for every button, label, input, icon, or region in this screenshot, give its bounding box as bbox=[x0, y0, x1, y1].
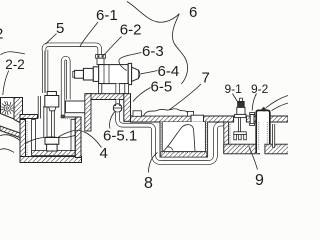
wire: curve at bottom left bbox=[0, 149, 14, 153]
pump neck bbox=[49, 107, 56, 111]
stirrer flange bbox=[235, 114, 246, 117]
pump canister top hat bbox=[47, 92, 56, 96]
tank 8 inner bottom band bbox=[161, 152, 207, 157]
feed hopper box 2 bbox=[1, 98, 15, 120]
svg-text:6-5: 6-5 bbox=[151, 79, 173, 96]
pipe stub into tank 4 left bbox=[38, 96, 40, 119]
svg-text:6-2: 6-2 bbox=[120, 22, 142, 39]
shaft segment large bbox=[93, 67, 98, 82]
tank 8 inner vessel bbox=[160, 122, 208, 157]
pipe 5 vertical (double-walled suction pipe) bbox=[42, 50, 48, 93]
wire: leader from label 2-2 to gear box bbox=[3, 71, 9, 96]
svg-text:6-5.1: 6-5.1 bbox=[103, 128, 137, 145]
pipe from valve to tank 8 jacket and around to tank 9 bbox=[118, 112, 229, 162]
dip tube bridge pipe bbox=[63, 58, 68, 115]
wire: leader 6-1 bbox=[80, 22, 98, 47]
narrow dark box between tank 9 and right tank bbox=[256, 110, 270, 153]
shaft segment mid bbox=[83, 68, 93, 80]
fitting 6-2 flange bbox=[96, 55, 106, 59]
hatched column under base plate left end bbox=[85, 94, 91, 131]
wire: leader 7 bbox=[169, 84, 201, 110]
svg-text:6-3: 6-3 bbox=[142, 43, 164, 60]
motor end plate bbox=[128, 63, 131, 84]
platform band segment B bbox=[204, 116, 234, 122]
svg-text:9-1: 9-1 bbox=[225, 82, 243, 96]
svg-text:9: 9 bbox=[255, 172, 264, 189]
svg-text:9-2: 9-2 bbox=[251, 82, 269, 96]
wire: leader 9-1 bbox=[233, 94, 240, 105]
base plate bbox=[86, 94, 124, 100]
wire: leader 8 bbox=[149, 152, 158, 172]
stirrer crossbar bbox=[234, 132, 247, 135]
svg-text:4: 4 bbox=[100, 145, 108, 162]
wire: curve into tank 4 lower left bbox=[0, 135, 22, 142]
dip tube end cap bbox=[61, 115, 66, 119]
pump head flange bbox=[45, 138, 59, 145]
tank 4 rim lip right (line with stipple) bbox=[65, 116, 78, 118]
stirrer motor body bbox=[237, 107, 245, 114]
tank 9 inner stipple bbox=[229, 124, 231, 144]
shaft cap bbox=[73, 71, 75, 77]
tank 4 outer jacket right wall bbox=[75, 117, 81, 158]
stirrer 9-1 motor cap bbox=[240, 98, 243, 101]
wire: leader 6-5 bbox=[133, 88, 151, 102]
wire: leader 6-3 bbox=[119, 53, 142, 71]
svg-text:6-4: 6-4 bbox=[158, 63, 180, 80]
gate box in band bbox=[191, 115, 204, 122]
svg-text:7: 7 bbox=[202, 70, 210, 87]
down pipe from motor bbox=[115, 84, 119, 104]
right tank dip tube bbox=[273, 124, 275, 148]
pump head body bbox=[47, 144, 58, 151]
svg-text:2-2: 2-2 bbox=[5, 57, 25, 72]
wire: leader 9-2 bbox=[252, 94, 256, 111]
platform band segment C bbox=[246, 116, 250, 122]
tank 4 outer jacket bottom bbox=[20, 157, 82, 163]
wire: leader 9 bbox=[249, 147, 258, 170]
hatched hopper wall bbox=[14, 98, 23, 125]
tank 4 inner vessel bottom bbox=[32, 151, 76, 156]
stirrer shaft bbox=[239, 118, 241, 132]
white ledge box under base plate left bbox=[66, 101, 87, 113]
valve 6-5.1 bbox=[113, 104, 122, 113]
wire: leader from right edge upper bbox=[266, 96, 288, 109]
platform band segment D bbox=[254, 116, 256, 122]
base plate right step block bbox=[124, 94, 131, 122]
pipe 5 top loop bbox=[44, 45, 100, 55]
svg-text:5: 5 bbox=[56, 20, 64, 37]
pump suction tube to head bbox=[44, 106, 47, 138]
motor 6-3 body bbox=[99, 65, 129, 84]
tank 4 rim left piece bbox=[20, 115, 38, 119]
tank 4 inner vessel right wall bbox=[71, 120, 75, 153]
pump canister body bbox=[45, 96, 59, 108]
pump rod bbox=[52, 111, 55, 138]
right tank bottom bbox=[265, 144, 289, 154]
clamp box at right end of lump bbox=[188, 111, 194, 116]
svg-text:2: 2 bbox=[0, 26, 3, 43]
small box on platform bbox=[133, 111, 142, 117]
platform band segment A bbox=[131, 116, 192, 122]
rotary star wheel 2-2 bbox=[0, 101, 14, 115]
wire: leader 6 upper curve bbox=[127, 2, 179, 23]
tank 9 bottom bbox=[224, 144, 260, 154]
tube 9-2 bbox=[250, 113, 255, 115]
tank 9 left wall bbox=[224, 122, 229, 153]
wire: leader 6-5.1 bbox=[110, 112, 115, 129]
tank 4 inner vessel left wall bbox=[26, 121, 28, 155]
stirrer teeth bbox=[234, 134, 237, 139]
mound inside tank 8 bbox=[163, 125, 195, 152]
wire: leader from right edge lower bbox=[272, 103, 289, 111]
wire: leader squiggle from label 2 bbox=[1, 52, 25, 55]
pipe through base to valve bbox=[115, 100, 119, 105]
shaft segment tip bbox=[75, 70, 84, 78]
svg-text:8: 8 bbox=[144, 175, 153, 192]
fitting 6-2 body bbox=[97, 58, 104, 64]
wire: leader 6-2 bbox=[104, 37, 122, 56]
wire: leader 5 bbox=[46, 34, 57, 45]
tank 4 outer jacket left wall bbox=[20, 120, 26, 158]
motor leg left bbox=[98, 84, 101, 94]
platform band segment E bbox=[270, 116, 288, 122]
wire: leader 4 bbox=[59, 130, 102, 147]
wire: leader 6 lower curve bbox=[172, 14, 187, 84]
knob on dark box bbox=[261, 107, 266, 112]
chute lower hatched strip bbox=[0, 126, 20, 138]
svg-text:6: 6 bbox=[189, 4, 197, 21]
bell nozzle 6-4 bbox=[132, 67, 140, 81]
svg-text:6-1: 6-1 bbox=[96, 7, 118, 24]
liquid wave in tank 4 bbox=[26, 135, 75, 143]
material lump 7 bbox=[144, 109, 189, 116]
motor leg right bbox=[125, 84, 129, 94]
wire: leader 6-4 bbox=[141, 71, 158, 74]
